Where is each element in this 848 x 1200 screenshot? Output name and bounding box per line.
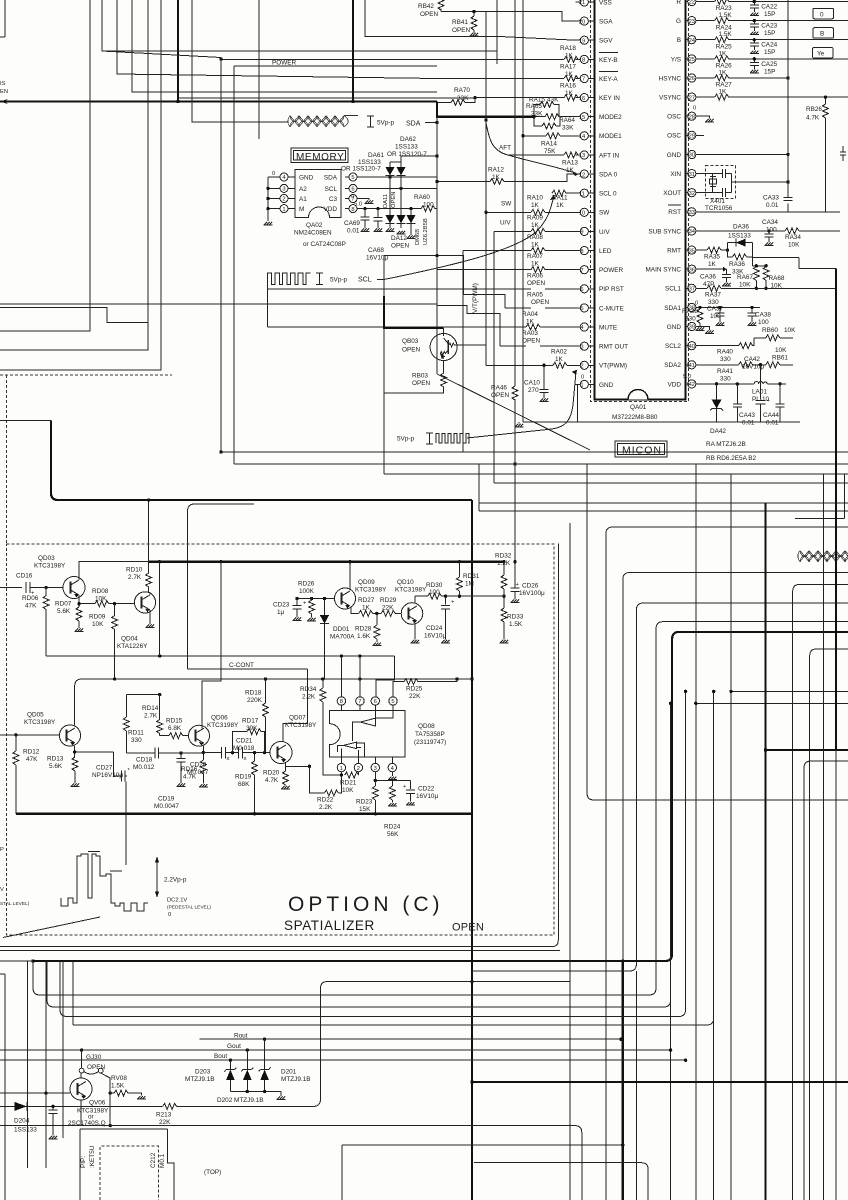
op-amp upper triangle (353, 710, 394, 741)
pin 10 SW (576, 208, 611, 217)
op-amp U QD08 TA75358P body (330, 710, 405, 757)
wire rail A y656 (46, 655, 395, 657)
resistor RD11 330 (125, 695, 127, 717)
svg-text:TCR1056: TCR1056 (705, 205, 733, 212)
svg-text:1.5K: 1.5K (719, 31, 733, 38)
ground rail under IC (523, 421, 800, 423)
svg-text:25: 25 (689, 57, 695, 63)
resistor RD33 1.5K (503, 596, 505, 608)
svg-text:37: 37 (689, 287, 695, 293)
svg-text:KEY-B: KEY-B (599, 57, 618, 64)
pin 11 SCL 0 (576, 189, 617, 198)
zener diode DA42 (715, 382, 718, 385)
wire jog feed pin3 (437, 306, 500, 347)
svg-text:RD15: RD15 (166, 718, 183, 725)
svg-text:RMT OUT: RMT OUT (599, 344, 628, 351)
pin 36 MAIN SYNC (645, 265, 695, 274)
capacitor CA33 0.01 inline (784, 198, 793, 201)
svg-text:RD25: RD25 (406, 686, 423, 693)
svg-text:M0.1: M0.1 (159, 1153, 166, 1168)
wire pin 33 RST line (696, 211, 840, 213)
zener D202 MTZJ9.1B (246, 1050, 248, 1069)
zener DM68 UZ6.2B5B (410, 209, 412, 215)
wire thick corner G5 x672.1 to y961 rail (33, 632, 848, 961)
wire VT waveform to pin2 curve (467, 372, 576, 438)
svg-text:CA43: CA43 (739, 412, 755, 419)
svg-text:RD33: RD33 (507, 614, 524, 621)
wire QD07 emitter east (286, 765, 310, 767)
svg-text:DD01: DD01 (333, 626, 350, 633)
svg-text:CA37: CA37 (707, 306, 723, 313)
wire pin 22 line to right edge (729, 1, 848, 3)
svg-text:29: 29 (689, 134, 695, 140)
pin 27 VSYNC (659, 93, 696, 102)
svg-text:OR 1SS120-7: OR 1SS120-7 (341, 166, 381, 173)
svg-text:330: 330 (131, 737, 142, 744)
svg-text:V: V (0, 887, 4, 893)
memory pin 1/8 M/VDD (268, 205, 357, 213)
off-page arrow POWER-line (1, 99, 8, 104)
svg-text:15P: 15P (764, 68, 775, 75)
svg-text:D203: D203 (195, 1069, 211, 1076)
svg-text:OPEN: OPEN (391, 192, 397, 208)
wire bus L2 y464 (234, 463, 848, 465)
svg-text:1K: 1K (531, 202, 540, 209)
svg-text:1.5K: 1.5K (719, 12, 733, 19)
wire corner G9 x695.8 (696, 464, 848, 1200)
pin 26 HSYNC (659, 74, 696, 83)
wire vertical x187.6 top corner (188, 504, 254, 669)
svg-text:47K: 47K (26, 756, 38, 763)
svg-text:CA68: CA68 (368, 247, 384, 254)
capacitor CA23 15P (753, 21, 755, 25)
pin 34 SUB SYNC (648, 227, 696, 236)
wire QD09 emitter (351, 607, 359, 613)
svg-text:MUTE: MUTE (599, 324, 617, 331)
wire bus x132 y92 (132, 0, 437, 92)
wire riser bus2 x670.6 (47, 703, 671, 1200)
svg-text:CD24: CD24 (426, 625, 443, 632)
wire SGV net to pin 19 (365, 0, 576, 40)
svg-text:RD22: RD22 (317, 797, 334, 804)
resistor RD24 56K (391, 780, 393, 786)
svg-text:RD10: RD10 (126, 567, 143, 574)
svg-text:GND: GND (599, 382, 614, 389)
wire vertical x148 corner y350 (0, 0, 148, 350)
diode DD01 MA700A (324, 599, 326, 616)
svg-text:12: 12 (579, 172, 585, 178)
resistor RD21 10K (344, 774, 346, 776)
wire pin7 feed (359, 656, 361, 697)
svg-text:5Vp-p: 5Vp-p (397, 436, 414, 443)
wire vertical x494 UV feed (493, 231, 495, 452)
svg-text:OPEN: OPEN (402, 347, 420, 354)
svg-text:330: 330 (720, 356, 731, 363)
svg-text:B: B (820, 31, 824, 38)
svg-text:RA46: RA46 (491, 385, 507, 392)
svg-text:M0.0047: M0.0047 (154, 803, 179, 810)
diode D204 1SS133 (0, 1105, 163, 1107)
capacitor CA25 15P (753, 59, 755, 63)
capacitor CA68 16V10u (374, 209, 383, 228)
resistor RD14 2.7K (157, 720, 163, 734)
svg-text:Y/S: Y/S (671, 56, 681, 63)
svg-text:RD12: RD12 (23, 749, 40, 756)
svg-text:RA06: RA06 (527, 273, 543, 280)
wire jumper to RV08 node (101, 1073, 111, 1093)
svg-text:RA12: RA12 (488, 167, 504, 174)
svg-text:KTC3198Y: KTC3198Y (34, 563, 66, 570)
wire vertical x234 down to L2 (233, 66, 235, 464)
wire thick bus corner to MODE2 (437, 102, 534, 117)
wire vertical x161 corner y370 (0, 0, 161, 370)
svg-text:DA36: DA36 (733, 224, 749, 231)
svg-text:0: 0 (820, 11, 824, 18)
svg-text:100K: 100K (299, 588, 315, 595)
svg-text:8: 8 (580, 249, 583, 255)
svg-text:A1: A1 (299, 196, 307, 203)
op-amp pin 6 (371, 697, 379, 711)
svg-text:OSC: OSC (667, 114, 681, 121)
wire pin 26 line to bus (729, 77, 788, 79)
svg-text:SGA: SGA (599, 19, 613, 26)
svg-text:P: P (0, 847, 4, 853)
wire memory SDA pin5 to bus (357, 176, 437, 178)
wire pin 42 VDD line (696, 383, 754, 385)
svg-text:10K: 10K (342, 787, 354, 794)
capacitor CD24 16V10u (441, 596, 450, 639)
wire QD04 collector (149, 592, 151, 595)
wire vertical x90 corner y331 (0, 0, 90, 331)
svg-text:UZ6.2B5B: UZ6.2B5B (423, 218, 429, 245)
wire QV06 collector to jumper and Gout (80, 1050, 82, 1078)
svg-text:MTZJ9.1B: MTZJ9.1B (185, 1076, 214, 1083)
svg-text:CD22: CD22 (418, 786, 435, 793)
svg-text:RA67: RA67 (737, 274, 753, 281)
wire KEY-B bus from x102 (102, 0, 221, 58)
svg-text:34: 34 (689, 229, 696, 235)
pin 4 MUTE (576, 323, 618, 332)
svg-text:RB03: RB03 (412, 373, 428, 380)
svg-text:8: 8 (351, 207, 354, 213)
svg-text:RA MTZJ6.2B: RA MTZJ6.2B (706, 441, 746, 448)
svg-text:RA68: RA68 (769, 275, 785, 282)
svg-text:10K: 10K (739, 282, 751, 289)
wire rail C y679 C-CONT (75, 679, 472, 686)
wire KEY-A bus from x117 (117, 0, 437, 79)
svg-text:(TOP): (TOP) (204, 1169, 221, 1176)
pin 41 SDA2 (664, 361, 696, 370)
svg-text:KEY IN: KEY IN (599, 95, 620, 102)
svg-text:RA04: RA04 (522, 311, 538, 318)
svg-text:KTC3198Y: KTC3198Y (395, 587, 427, 594)
resistor RD34 2.2K (322, 679, 324, 688)
svg-text:3: 3 (282, 187, 285, 193)
wire corner G7 x809.7 (810, 649, 848, 1200)
resistor RD25 22K (404, 679, 418, 685)
svg-text:RA10: RA10 (527, 195, 543, 202)
svg-text:1.5K: 1.5K (509, 621, 523, 628)
svg-text:330: 330 (720, 376, 731, 383)
svg-text:2: 2 (282, 197, 285, 203)
svg-text:SCL2: SCL2 (665, 343, 681, 350)
resistor RA68 10K (763, 267, 769, 281)
svg-text:RD07: RD07 (55, 601, 72, 608)
svg-text:9: 9 (580, 230, 583, 236)
pin 22 R (676, 0, 696, 6)
svg-text:RD13: RD13 (47, 756, 64, 763)
wire thick vertical x353 (352, 0, 354, 102)
wire vertical x515 (514, 0, 516, 464)
svg-text:SCL1: SCL1 (665, 286, 681, 293)
wire bus y503 (479, 502, 848, 504)
svg-text:STAL LEVEL): STAL LEVEL) (0, 901, 30, 907)
wire crystal to bus x788 (732, 174, 789, 193)
svg-text:15P: 15P (764, 49, 775, 56)
wire pin 39 GND to ground (696, 327, 710, 330)
memory left common wire to ground (267, 177, 269, 221)
wire vertical x27.6 (27, 961, 29, 1168)
svg-text:OPEN: OPEN (412, 380, 430, 387)
svg-text:RV08: RV08 (111, 1075, 127, 1082)
svg-text:18: 18 (579, 58, 585, 64)
svg-text:100: 100 (429, 589, 440, 596)
pin 6 PIP RST (576, 285, 624, 294)
wire QV06 emitter (80, 1100, 82, 1126)
wire y304 bus (0, 303, 437, 305)
wire pin 23 line to right edge (729, 20, 848, 22)
pin 31 XIN (670, 170, 696, 179)
svg-text:2.2K: 2.2K (319, 804, 333, 811)
wire QD06 collector jog x220.8 (202, 562, 221, 729)
svg-text:1M: 1M (465, 581, 474, 588)
wire pin1 bottom node (323, 702, 342, 775)
svg-text:15P: 15P (764, 11, 775, 18)
svg-text:56K: 56K (387, 831, 399, 838)
wire diode tops to SDA bus (390, 156, 437, 162)
svg-text:16V10μ: 16V10μ (742, 364, 764, 371)
wire memory SCL pin6 to bus (357, 187, 437, 189)
resistor RA25 1K on pin 24 line (715, 37, 729, 43)
wire QD03 base (46, 587, 63, 589)
wire y307.5 jog via x107 (0, 308, 148, 323)
svg-text:LA01: LA01 (752, 389, 767, 396)
resistor RD08 10K (79, 603, 134, 605)
svg-text:SDA: SDA (406, 121, 421, 128)
svg-text:16V10μ: 16V10μ (416, 793, 438, 800)
svg-text:24: 24 (689, 38, 696, 44)
svg-text:10K: 10K (92, 621, 104, 628)
svg-text:1K: 1K (556, 202, 565, 209)
wire bus L4 y483 (494, 482, 848, 484)
svg-text:U/V: U/V (500, 220, 511, 227)
svg-text:SGV: SGV (599, 38, 613, 45)
svg-text:0: 0 (168, 912, 171, 918)
resistor RB60 10K (766, 335, 780, 341)
svg-text:CD23: CD23 (273, 602, 290, 609)
transistor QV06 KTC3198Y (70, 1078, 92, 1100)
wire QB03 collector (443, 328, 445, 336)
wire DA36 right leg to RA67/RA68 (752, 243, 836, 269)
svg-text:RB26: RB26 (806, 106, 822, 113)
capacitor CA43 0.01 (736, 382, 739, 385)
svg-text:1.5K: 1.5K (111, 1083, 125, 1090)
resistor R213 22K (163, 1103, 177, 1109)
svg-text:5Vp-p: 5Vp-p (330, 277, 347, 284)
svg-text:EN: EN (0, 89, 8, 95)
svg-text:1: 1 (580, 383, 583, 389)
svg-text:OR 1SS120-7: OR 1SS120-7 (387, 151, 427, 158)
resistor RA34 10K on pin 34 line (696, 230, 840, 232)
svg-text:RA18: RA18 (560, 45, 576, 52)
svg-text:QA02: QA02 (306, 222, 323, 229)
svg-text:CD21: CD21 (236, 738, 253, 745)
svg-text:RD23: RD23 (356, 799, 373, 806)
svg-text:100: 100 (758, 319, 769, 326)
wire pin3 node y780.4 (375, 772, 410, 781)
svg-text:PL-10: PL-10 (752, 396, 769, 403)
svg-text:CD19: CD19 (158, 796, 175, 803)
svg-text:1K: 1K (362, 605, 371, 612)
svg-text:DA62: DA62 (400, 136, 416, 143)
wire corner G3 x636.4 (472, 603, 848, 1200)
connector box B (813, 28, 834, 39)
resistor RD15 6.8K on QD06 base (160, 734, 189, 736)
svg-text:10: 10 (579, 211, 585, 217)
svg-text:8: 8 (340, 699, 343, 705)
resistor RA24 1.5K on pin 23 line (715, 18, 729, 24)
svg-text:SCL: SCL (358, 277, 372, 284)
svg-text:M: M (299, 206, 304, 213)
svg-text:Bout: Bout (214, 1053, 227, 1060)
svg-text:16V100μ: 16V100μ (519, 590, 545, 597)
svg-text:RD31: RD31 (463, 573, 480, 580)
svg-text:C3: C3 (329, 196, 338, 203)
zener D203 MTZJ9.1B (229, 1060, 231, 1069)
svg-text:RB61: RB61 (772, 355, 788, 362)
svg-text:RA41: RA41 (717, 368, 733, 375)
wire thick corner G10 x765.5 (766, 503, 848, 1200)
wire thick rail y961 (0, 960, 33, 962)
svg-text:OPTION (C): OPTION (C) (288, 893, 444, 916)
wire thick corner x51 to y500 (51, 421, 472, 501)
hatched bar right edge (798, 551, 848, 562)
wire bus L1 y452 (221, 451, 848, 453)
wire SCL column (267, 285, 269, 327)
wire POWER bus y66 (234, 65, 437, 67)
wire vertical x259 (258, 0, 260, 139)
svg-text:RA11: RA11 (552, 195, 568, 202)
pin 20 SGA (576, 17, 614, 26)
svg-text:RMT: RMT (667, 248, 681, 255)
svg-text:RD27: RD27 (358, 597, 375, 604)
svg-text:36: 36 (689, 267, 695, 273)
svg-text:CA10: CA10 (524, 380, 540, 387)
wire corner G6 x792.7 (793, 584, 848, 1200)
svg-text:SDA1: SDA1 (664, 305, 681, 312)
svg-text:0.01: 0.01 (766, 202, 779, 209)
svg-text:QD05: QD05 (27, 712, 44, 719)
svg-text:SCL: SCL (325, 186, 338, 193)
ground below RB41 (470, 33, 479, 36)
svg-text:RA38: RA38 (682, 308, 698, 315)
svg-text:MA700A: MA700A (330, 634, 355, 641)
op-amp pin 4 (388, 757, 396, 772)
svg-text:RA34: RA34 (785, 234, 801, 241)
resistor on pin 27 line (715, 94, 729, 100)
pin 12 SDA 0 (576, 170, 618, 179)
op-amp pin 2 (354, 757, 362, 772)
svg-text:AFT IN: AFT IN (599, 152, 620, 159)
svg-text:RA36: RA36 (729, 261, 745, 268)
svg-text:DA11: DA11 (383, 194, 389, 208)
wire riser bus3 x685.6 (60, 691, 686, 1016)
svg-text:10K: 10K (775, 347, 787, 354)
svg-text:CD26: CD26 (522, 583, 539, 590)
svg-text:QD04: QD04 (121, 636, 138, 643)
wire bus y511 (479, 510, 848, 512)
resistor RD29 22K (373, 612, 382, 614)
svg-text:RD09: RD09 (89, 614, 106, 621)
svg-text:A2: A2 (299, 186, 307, 193)
pin 5 C-MUTE (576, 304, 624, 313)
SCL waveform square wave (268, 273, 311, 285)
svg-text:33: 33 (689, 210, 695, 216)
wire bus y1082 thick (472, 1081, 848, 1083)
svg-text:1.2K: 1.2K (497, 560, 511, 567)
dashed left edge above option box (6, 375, 8, 544)
svg-text:XOUT: XOUT (663, 190, 681, 197)
svg-text:0: 0 (272, 171, 275, 177)
svg-text:SPATIALIZER: SPATIALIZER (284, 918, 375, 933)
wire vertical x823.6 (823, 474, 825, 1200)
svg-text:1SS133: 1SS133 (395, 144, 418, 151)
svg-text:MODE2: MODE2 (599, 114, 622, 121)
pin 19 SGV (576, 36, 614, 44)
wire curve SCL waveform to pin 11 SCL 0 (384, 198, 554, 280)
svg-text:2.7K: 2.7K (128, 574, 142, 581)
svg-text:PIP RST: PIP RST (599, 286, 624, 293)
wire rail y1125.6 into corner x581.8 (0, 1126, 582, 1200)
svg-text:OPEN: OPEN (527, 280, 545, 287)
wire QB03 collector stub (443, 328, 445, 334)
capacitor CD23 1u (292, 599, 301, 618)
svg-text:OPEN: OPEN (452, 922, 484, 934)
resistor RD28 1.6K (376, 613, 378, 625)
svg-text:RD08: RD08 (92, 588, 109, 595)
svg-text:G: G (676, 18, 681, 25)
wire SDA/SCL bus x437 (436, 117, 438, 374)
svg-text:30: 30 (689, 153, 695, 159)
pin 2 VT(PWM) (576, 361, 628, 370)
wire QD09 collector riser (349, 562, 351, 590)
pin 28 OSC (667, 112, 696, 121)
svg-text:10K: 10K (784, 327, 796, 334)
svg-text:M0.047: M0.047 (187, 769, 209, 776)
wire rail B y668.8 (188, 668, 308, 670)
waveform amplitude mark I (SCL) (316, 273, 323, 285)
transistor QD03 KTC3198Y (63, 577, 85, 599)
zener D201 MTZJ9.1B (264, 1039, 266, 1069)
wire bus y98 KEY-IN feed (178, 97, 475, 99)
svg-text:x: x (227, 756, 230, 762)
leader diagonal (3, 917, 100, 938)
pin 18 KEY-B (576, 53, 619, 64)
capacitor CD26 16V100u (510, 464, 519, 599)
wire QV06 base line (0, 1092, 70, 1094)
SEC5 (0, 256, 848, 1200)
svg-text:M37222M8-B80: M37222M8-B80 (612, 414, 658, 421)
